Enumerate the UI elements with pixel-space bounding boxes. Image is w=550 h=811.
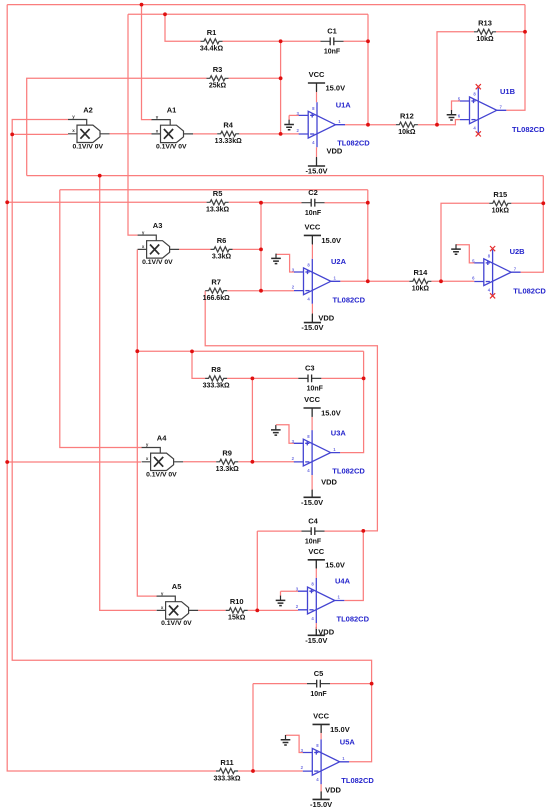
wire R5 right to C2 node: [229, 201, 302, 203]
wire R12 to U1B inverting input: [418, 120, 460, 125]
svg-text:10nF: 10nF: [324, 49, 341, 56]
wire R15 right: [511, 202, 543, 204]
junction node4 / R10: [255, 609, 259, 613]
resistor R4: [217, 131, 239, 136]
op-amp U3A: [294, 430, 340, 475]
svg-text:6: 6: [472, 276, 475, 281]
wire R8 C3 line: [227, 377, 298, 379]
junction node5 / R11: [251, 769, 255, 773]
svg-text:C2: C2: [308, 188, 318, 197]
svg-text:R1: R1: [207, 28, 217, 37]
svg-text:R13: R13: [478, 19, 492, 28]
svg-text:10kΩ: 10kΩ: [412, 286, 430, 293]
svg-text:TL082CD: TL082CD: [332, 467, 365, 476]
svg-text:A4: A4: [157, 434, 167, 443]
svg-text:2: 2: [292, 456, 295, 461]
svg-text:x: x: [142, 244, 145, 249]
svg-text:VCC: VCC: [308, 547, 324, 556]
svg-text:1: 1: [342, 756, 345, 761]
svg-text:15kΩ: 15kΩ: [228, 615, 246, 622]
wire U2A output rail y=189.8: [60, 189, 368, 191]
junction R15 right: [541, 201, 545, 205]
resistor R6: [211, 247, 233, 252]
wire U5A ground to +input: [286, 735, 304, 752]
svg-text:R8: R8: [211, 365, 221, 374]
svg-text:-15.0V: -15.0V: [310, 800, 332, 809]
ground at U4A: [280, 596, 282, 601]
svg-text:0.1V/V 0V: 0.1V/V 0V: [142, 259, 173, 266]
svg-text:2: 2: [292, 285, 295, 290]
svg-text:7: 7: [514, 266, 517, 271]
svg-text:R6: R6: [217, 236, 227, 245]
wire R15 feedback branch: [441, 203, 489, 281]
svg-text:333.3kΩ: 333.3kΩ: [203, 383, 230, 390]
wire stage3 summing rail x=252.4: [251, 378, 253, 461]
svg-text:y: y: [156, 114, 159, 119]
wire R7 right: [227, 290, 261, 292]
junction node1 / C1 left: [279, 39, 283, 43]
svg-text:U1A: U1A: [336, 101, 352, 110]
svg-text:U2A: U2A: [331, 257, 347, 266]
svg-text:C4: C4: [308, 516, 318, 525]
resistor R10: [226, 608, 248, 613]
svg-text:2: 2: [297, 128, 300, 133]
svg-text:3.3kΩ: 3.3kΩ: [212, 254, 232, 261]
svg-text:8: 8: [488, 253, 491, 258]
junction U1A rail / R1: [163, 12, 167, 16]
capacitor C2: [302, 202, 325, 204]
wire U1A output rail y=14.3: [128, 13, 368, 15]
wire U1B output right rail x=525: [506, 5, 525, 111]
wire A3 x-input rail x=137.3 down to A5 y-input: [137, 250, 157, 597]
wire rail x=12.2 down to U5A output rail: [12, 134, 371, 761]
VDD U1A: [308, 165, 325, 167]
resistor R3: [207, 76, 229, 81]
op-amp U2A: [294, 259, 340, 304]
wire R11 right to U5A inverting input: [238, 770, 303, 772]
wire R3 right to summing node: [229, 77, 281, 79]
wire U2A ground to +input: [276, 254, 295, 272]
wire C4 left: [257, 530, 301, 532]
junction U3A rail / R8: [190, 350, 194, 354]
wire R7 from U4A output loop: [205, 291, 377, 531]
resistor R14: [409, 279, 431, 284]
junction node2 / R7: [259, 289, 263, 293]
svg-text:1: 1: [333, 447, 336, 452]
wire left rail x=7.2 down to R11: [7, 5, 216, 771]
svg-text:15.0V: 15.0V: [326, 84, 346, 93]
svg-text:15.0V: 15.0V: [321, 236, 341, 245]
wire C2 right: [325, 202, 368, 204]
wire C5 left: [253, 683, 307, 685]
op-amp U4A: [298, 578, 344, 623]
junction C2 right: [366, 201, 370, 205]
svg-text:6: 6: [458, 114, 461, 119]
svg-text:R7: R7: [211, 278, 221, 287]
svg-text:13.3kΩ: 13.3kΩ: [216, 466, 240, 473]
wire R1 branch x=165: [165, 14, 201, 41]
svg-text:10nF: 10nF: [305, 538, 322, 545]
wire A2 y-input from x=12.2 rail: [12, 120, 68, 135]
wire C4 right: [325, 530, 364, 532]
junction node1 / R3: [279, 76, 283, 80]
svg-text:A1: A1: [167, 106, 177, 115]
svg-text:4: 4: [307, 297, 310, 302]
ground at U3A: [275, 425, 277, 430]
capacitor C4: [302, 530, 325, 532]
svg-text:R15: R15: [493, 190, 507, 199]
op-amp U2B: [474, 250, 520, 295]
svg-text:R11: R11: [220, 758, 233, 767]
svg-text:0.1V/V 0V: 0.1V/V 0V: [146, 472, 177, 479]
svg-text:8: 8: [473, 92, 476, 97]
svg-text:y: y: [142, 230, 145, 235]
svg-text:TL082CD: TL082CD: [341, 776, 374, 785]
VDD U3A: [304, 496, 321, 498]
svg-text:-15.0V: -15.0V: [305, 636, 327, 645]
svg-text:A5: A5: [172, 582, 182, 591]
svg-text:VDD: VDD: [325, 786, 341, 795]
wire rail x=141.5 to A1 y-input: [142, 5, 153, 120]
svg-text:TL082CD: TL082CD: [337, 615, 370, 624]
VDD U2A: [304, 322, 321, 324]
ground at U1A: [288, 120, 290, 125]
wire U4A ground to +input: [281, 590, 299, 592]
svg-text:10nF: 10nF: [307, 386, 324, 393]
wire U3A output up to C3: [340, 351, 364, 452]
resistor R7: [205, 288, 227, 293]
wire stage5 summing rail x=253: [252, 684, 254, 771]
svg-text:U1B: U1B: [500, 87, 516, 96]
resistor R15: [489, 201, 511, 206]
op-amp U5A: [303, 739, 349, 784]
wire rail x=128 to A3 y-input: [128, 14, 138, 235]
svg-text:0.1V/V 0V: 0.1V/V 0V: [72, 144, 103, 151]
svg-text:10kΩ: 10kΩ: [398, 129, 416, 136]
VDD U4A: [308, 634, 325, 636]
junction C1 right: [366, 39, 370, 43]
wire A1 output to R4: [193, 133, 217, 135]
wire R9 to U3A inverting input: [238, 461, 294, 463]
junction C5 right: [370, 682, 374, 686]
VDD U5A: [313, 798, 330, 800]
wire rail x=368 U1A output loop: [367, 14, 369, 124]
svg-text:x: x: [146, 456, 149, 461]
resistor R13: [474, 29, 496, 34]
svg-text:x: x: [156, 128, 159, 133]
svg-text:2: 2: [296, 604, 299, 609]
svg-text:4: 4: [312, 140, 315, 145]
wire stage1 summing rail x=280.6: [280, 41, 282, 134]
svg-text:8: 8: [316, 743, 319, 748]
svg-text:0.1V/V 0V: 0.1V/V 0V: [156, 144, 187, 151]
svg-text:10kΩ: 10kΩ: [492, 208, 510, 215]
wire R5 from U1B rail: [7, 201, 206, 203]
svg-text:15.0V: 15.0V: [330, 725, 350, 734]
svg-text:VCC: VCC: [309, 70, 325, 79]
wire R10 to U4A inverting input: [248, 609, 298, 611]
svg-text:10kΩ: 10kΩ: [476, 36, 494, 43]
junction node3 / C3: [251, 377, 255, 381]
ground at U2A: [275, 254, 277, 259]
svg-text:VCC: VCC: [313, 712, 329, 721]
svg-text:y: y: [161, 591, 164, 596]
svg-text:VCC: VCC: [304, 395, 320, 404]
wire U2A output to R14: [340, 280, 409, 282]
svg-text:VDD: VDD: [327, 146, 343, 155]
ground at U2B: [455, 244, 457, 249]
svg-text:R5: R5: [213, 189, 223, 198]
wire R8 branch x=192: [192, 351, 205, 378]
svg-text:VDD: VDD: [321, 478, 337, 487]
wire A3 output to R6: [179, 248, 210, 250]
svg-text:R14: R14: [414, 268, 429, 277]
junction R13 tap: [435, 123, 439, 127]
resistor R5: [207, 200, 229, 205]
svg-text:4: 4: [307, 468, 310, 473]
resistor R8: [205, 376, 227, 381]
wire U3A output rail y=351.2: [137, 350, 363, 352]
svg-text:-15.0V: -15.0V: [301, 498, 323, 507]
svg-text:333.3kΩ: 333.3kΩ: [213, 775, 240, 782]
svg-text:7: 7: [500, 105, 503, 110]
wire C1 left: [281, 40, 321, 42]
resistor R1: [201, 39, 223, 44]
svg-text:8: 8: [311, 582, 314, 587]
wire U2B output rail y=175.6: [27, 175, 544, 177]
svg-text:y: y: [72, 114, 75, 119]
svg-text:VCC: VCC: [304, 223, 320, 232]
svg-text:U3A: U3A: [331, 428, 347, 437]
svg-text:C3: C3: [305, 364, 315, 373]
svg-text:4: 4: [473, 126, 476, 131]
svg-text:U4A: U4A: [335, 576, 351, 585]
wire rail x=59.8 to A4 y-input: [60, 190, 142, 448]
wire ground stub U1A: [288, 115, 290, 120]
svg-text:25kΩ: 25kΩ: [209, 83, 227, 90]
svg-text:8: 8: [307, 263, 310, 268]
ground at U5A: [285, 735, 287, 740]
svg-text:1: 1: [338, 119, 341, 124]
junction node3 / R9: [251, 460, 255, 464]
svg-text:15.0V: 15.0V: [321, 409, 341, 418]
svg-text:8: 8: [312, 106, 315, 111]
wire A5 output to R10: [198, 609, 226, 611]
wire U2B output to rail: [521, 176, 544, 273]
svg-text:A2: A2: [83, 106, 93, 115]
wire R14 to U2B inverting input: [431, 280, 474, 282]
svg-text:VDD: VDD: [318, 313, 334, 322]
svg-text:R10: R10: [230, 597, 244, 606]
junction U3A rail / A3 x: [135, 349, 139, 353]
svg-text:166.6kΩ: 166.6kΩ: [203, 295, 230, 302]
svg-text:A3: A3: [153, 221, 163, 230]
wire U1B +input ground elbow: [452, 101, 461, 111]
svg-text:U5A: U5A: [340, 738, 356, 747]
wire A4 output to R9: [183, 461, 216, 463]
wire stage4 summing rail x=257.3: [256, 531, 258, 610]
svg-text:2: 2: [301, 765, 304, 770]
wire R3 loop from U2B rail: [27, 78, 207, 175]
svg-text:x: x: [161, 605, 164, 610]
svg-text:1: 1: [338, 595, 341, 600]
junction node2 / R6: [259, 248, 263, 252]
wire R13 feedback branch: [437, 32, 474, 125]
svg-text:-15.0V: -15.0V: [305, 167, 327, 176]
svg-text:34.4kΩ: 34.4kΩ: [200, 46, 224, 53]
wire C3 right: [321, 377, 363, 379]
wire A2 x-input: [12, 133, 68, 135]
capacitor C1: [321, 40, 344, 42]
op-amp U1A: [299, 102, 345, 147]
svg-text:TL082CD: TL082CD: [333, 295, 366, 304]
svg-text:4: 4: [316, 777, 319, 782]
junction U1B rail / A4 x: [5, 460, 9, 464]
svg-text:0.1V/V 0V: 0.1V/V 0V: [161, 620, 192, 627]
junction node1 / R4: [279, 132, 283, 136]
svg-text:R9: R9: [222, 449, 232, 458]
wire A2 output to A1 x-input: [110, 133, 152, 135]
svg-text:R12: R12: [400, 112, 414, 121]
wire R6 right to summing node: [233, 248, 262, 250]
svg-text:-15.0V: -15.0V: [301, 323, 323, 332]
wire U1B output top rail y=4.6: [7, 4, 525, 6]
svg-text:R4: R4: [223, 121, 233, 130]
junction node2 / C2: [259, 201, 263, 205]
svg-text:10nF: 10nF: [305, 210, 322, 217]
wire U1A output to R12: [345, 124, 396, 126]
svg-text:15.0V: 15.0V: [325, 560, 345, 569]
wire R13 right: [496, 31, 525, 33]
svg-text:C5: C5: [314, 669, 324, 678]
junction U1B rail / R5: [5, 200, 9, 204]
wire R1 right to summing node: [223, 40, 281, 42]
wire rail x=367.8 U2A output loop: [367, 190, 369, 281]
wire A4 x-input from x=7.2 rail: [7, 461, 141, 463]
svg-text:8: 8: [307, 434, 310, 439]
wire R7 node to U2A inverting input: [261, 290, 294, 292]
wire U2B +input ground elbow: [456, 245, 475, 263]
resistor R9: [216, 459, 238, 464]
wire R4 to summing node: [239, 133, 299, 135]
svg-text:TL082CD: TL082CD: [513, 286, 546, 295]
svg-text:4: 4: [488, 288, 491, 293]
ground at U1B: [451, 110, 453, 115]
svg-text:1: 1: [334, 276, 337, 281]
svg-text:y: y: [146, 442, 149, 447]
junction R13 right: [523, 30, 527, 34]
op-amp U1B: [460, 88, 506, 133]
resistor R11: [216, 768, 238, 773]
wire rail x=99.7 to A5 x-input: [100, 176, 157, 611]
wire C5 right: [330, 683, 372, 685]
junction U1A output: [366, 123, 370, 127]
svg-text:C1: C1: [327, 27, 337, 36]
wire ground stub U4A: [280, 591, 282, 596]
junction A2 x y tie: [10, 133, 14, 137]
junction R15 tap: [439, 279, 443, 283]
wire C1 right to x=368: [344, 40, 369, 42]
capacitor C5: [307, 683, 330, 685]
junction C4 right: [361, 529, 365, 533]
wire stage2 summing rail x=261: [260, 203, 262, 291]
wire U1A +input to ground: [289, 114, 299, 116]
svg-text:4: 4: [311, 616, 314, 621]
junction C3 right: [362, 377, 366, 381]
svg-text:13.33kΩ: 13.33kΩ: [215, 138, 242, 145]
junction U2A output: [366, 279, 370, 283]
svg-text:x: x: [72, 128, 75, 133]
svg-text:10nF: 10nF: [310, 691, 327, 698]
junction U2B rail / A5 x: [98, 174, 102, 178]
svg-text:U2B: U2B: [510, 247, 526, 256]
svg-text:TL082CD: TL082CD: [512, 125, 545, 134]
wire U4A output up to C4: [344, 531, 363, 601]
resistor R12: [396, 122, 418, 127]
capacitor C3: [298, 377, 321, 379]
junction U1B rail / A1 y: [140, 3, 144, 7]
svg-text:13.3kΩ: 13.3kΩ: [206, 207, 230, 214]
svg-text:R3: R3: [213, 65, 223, 74]
wire U3A ground to +input: [276, 425, 294, 444]
